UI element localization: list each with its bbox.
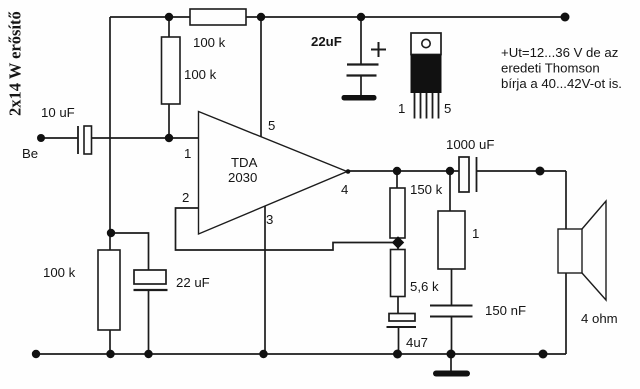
wire 100k divider to pin1 node — [168, 17, 170, 138]
wire left bias rail — [109, 17, 111, 354]
node ground rail C6 junction — [447, 350, 456, 359]
resistor R2 100k vertical — [162, 37, 181, 104]
svg-text:1000 uF: 1000 uF — [446, 137, 494, 152]
wire pin 3 to ground rail — [264, 206, 266, 354]
svg-text:100 k: 100 k — [193, 35, 226, 50]
resistor R5 5.6k — [391, 250, 406, 297]
node ground rail pin3 junction — [259, 350, 267, 358]
svg-text:TDA: TDA — [231, 155, 258, 170]
wire input to pin 1 — [41, 137, 199, 139]
wire speaker branch down — [565, 171, 567, 354]
svg-text:22 uF: 22 uF — [176, 275, 210, 290]
svg-text:Be: Be — [22, 146, 38, 161]
resistor R4 150k — [390, 188, 405, 238]
wire pin 2 feedback loop — [176, 208, 399, 250]
capacitor C4 4u7 — [387, 314, 417, 328]
capacitor C2 22uF decoupling — [347, 65, 379, 76]
polarity plus C2 — [371, 42, 386, 57]
transistor U2 TO-220 package — [411, 33, 442, 119]
node output speaker junction — [536, 167, 545, 176]
node apex pin4 — [346, 169, 351, 174]
wire 22uF bottom branch — [111, 233, 149, 354]
svg-text:1: 1 — [184, 146, 191, 161]
node ground rail C4 junction — [393, 350, 402, 359]
wire 1 ohm zobel branch — [450, 171, 452, 354]
wire 5.6k to 4u7 — [397, 247, 400, 354]
svg-text:eredeti Thomson: eredeti Thomson — [501, 61, 600, 76]
capacitor C3 22uF bottom — [134, 270, 168, 290]
svg-text:10 uF: 10 uF — [41, 105, 75, 120]
svg-text:5,6 k: 5,6 k — [410, 279, 439, 294]
svg-text:1: 1 — [472, 226, 479, 241]
ground C2 — [342, 95, 377, 101]
node top rail pin5 junction — [257, 13, 265, 21]
node left rail 22uF junction — [107, 229, 115, 237]
svg-text:5: 5 — [444, 101, 451, 116]
ground symbol bottom — [433, 371, 470, 377]
resistor R3 100k bottom left — [98, 250, 120, 330]
speaker LS1 — [558, 201, 606, 300]
svg-text:150 nF: 150 nF — [485, 303, 526, 318]
node output 150k junction — [393, 167, 401, 175]
node ground rail speaker junction — [539, 350, 548, 359]
svg-text:100 k: 100 k — [43, 265, 76, 280]
node Be input — [37, 134, 45, 142]
wire 22uF decoupling branch — [360, 17, 362, 96]
svg-text:1: 1 — [398, 101, 405, 116]
wire pin 5 supply — [260, 17, 262, 137]
wire top supply rail — [110, 16, 565, 18]
op-amp U1 TDA2030 — [199, 112, 348, 235]
capacitor C5 1000uF output — [459, 157, 477, 192]
svg-text:4u7: 4u7 — [406, 335, 428, 350]
node top rail R2 junction — [165, 13, 173, 21]
svg-text:2030: 2030 — [228, 170, 257, 185]
svg-text:5: 5 — [268, 118, 275, 133]
svg-text:bírja a 40...42V-ot is.: bírja a 40...42V-ot is. — [501, 76, 622, 91]
wire ground stub — [450, 354, 452, 371]
wire output from pin 4 — [347, 170, 566, 172]
resistor R6 1 ohm — [438, 211, 465, 269]
resistor R1 100k horizontal — [190, 9, 246, 25]
svg-text:3: 3 — [266, 212, 273, 227]
node feedback diamond junction — [392, 236, 404, 248]
svg-text:100 k: 100 k — [184, 67, 217, 82]
node top rail 22uF junction — [357, 13, 365, 21]
svg-text:4 ohm: 4 ohm — [581, 311, 618, 326]
node output 1ohm junction — [446, 167, 454, 175]
svg-text:+Ut=12...36 V de az: +Ut=12...36 V de az — [501, 45, 618, 60]
capacitor C6 150nF — [430, 306, 473, 317]
svg-text:22uF: 22uF — [311, 34, 342, 49]
wire bottom ground rail — [36, 353, 566, 355]
node ground rail left end — [32, 350, 40, 358]
node ground rail C3 junction — [144, 350, 152, 358]
capacitor C1 10uF input — [78, 126, 92, 154]
svg-text:4: 4 — [341, 182, 348, 197]
node top rail supply end — [561, 13, 570, 22]
svg-text:2: 2 — [182, 190, 189, 205]
wire 150k feedback branch — [396, 171, 398, 247]
node ground rail R3 junction — [106, 350, 114, 358]
svg-text:150 k: 150 k — [410, 182, 443, 197]
node pin1 input junction — [165, 134, 173, 142]
svg-text:2x14 W erősítő: 2x14 W erősítő — [6, 11, 25, 116]
